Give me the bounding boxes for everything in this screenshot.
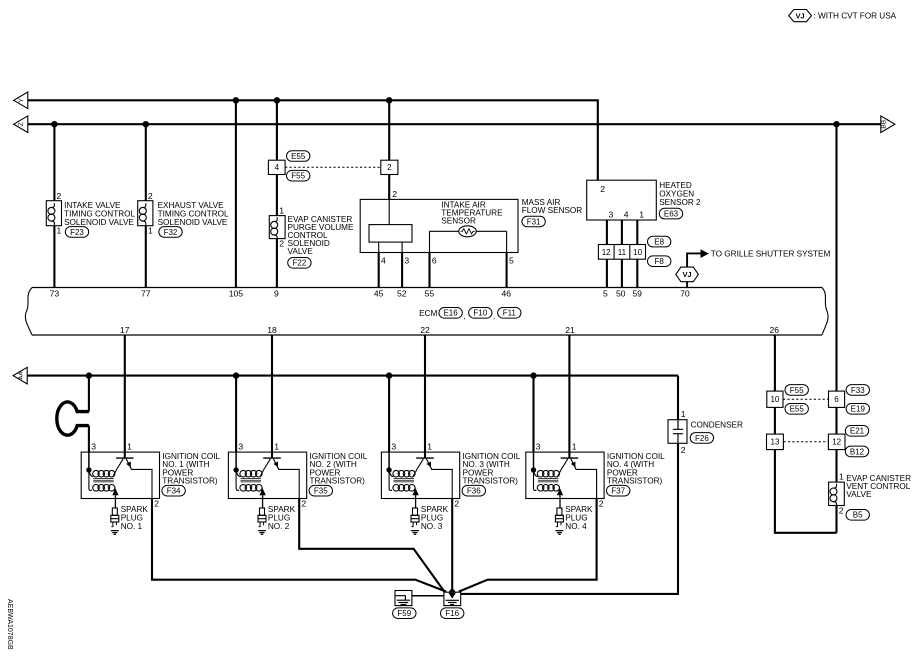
connector box 2 xyxy=(381,160,398,174)
wire MAF pin 4 to ECM pin 45 xyxy=(378,253,380,288)
wire coil 1 pin 2 to ground joint xyxy=(152,499,446,592)
svg-text:F35: F35 xyxy=(314,487,328,496)
transformer core of coil 2 xyxy=(241,479,261,482)
secondary output arrow xyxy=(112,488,118,495)
svg-text:12: 12 xyxy=(832,438,841,447)
wire ECM to coil 2 pin 1 (base) xyxy=(271,335,273,458)
node AA bus / ignition coil 3 pin 3 xyxy=(386,372,392,378)
connector label F32 xyxy=(159,227,182,238)
wire pin 3 inside box xyxy=(235,452,237,470)
svg-text:1: 1 xyxy=(427,442,432,452)
wire MAF pin 5 to ECM pin 46 xyxy=(506,253,508,288)
transistor emitter arrowhead xyxy=(126,462,131,468)
ignition coil no. 4 box xyxy=(526,452,604,498)
connector label F55 (right) xyxy=(785,385,808,396)
wire coil 4 pin 2 to ground joint xyxy=(459,499,597,592)
svg-text:SENSOR 2: SENSOR 2 xyxy=(659,198,701,207)
secondary winding of coil 4 xyxy=(534,470,561,491)
power transistor of coil 3 xyxy=(416,458,452,498)
wire AA bus to coil 1 pin 3 (upper) xyxy=(88,376,90,412)
svg-text:10: 10 xyxy=(770,395,779,404)
secondary output arrow xyxy=(412,488,418,495)
svg-text:F22: F22 xyxy=(293,259,307,268)
svg-text:12: 12 xyxy=(602,248,611,257)
heated oxygen sensor 2 E63 box xyxy=(587,180,657,220)
primary winding of coil 3 xyxy=(389,470,417,478)
node ground joint above F16 xyxy=(449,589,455,595)
node coil 3 primary/secondary join xyxy=(386,467,391,472)
wire Y bus to mass air flow sensor pin 2 xyxy=(388,100,390,199)
svg-text:22: 22 xyxy=(420,325,430,335)
svg-text:4: 4 xyxy=(624,209,629,219)
arrowhead to grille shutter system xyxy=(701,249,709,258)
wire connector to ECM pin 50 xyxy=(621,259,623,287)
svg-text:TRANSISTOR): TRANSISTOR) xyxy=(310,477,366,486)
svg-text:CONDENSER: CONDENSER xyxy=(691,420,743,429)
svg-text:F23: F23 xyxy=(70,228,84,237)
svg-text:F10: F10 xyxy=(473,309,487,318)
connector boxes 12 11 10 (E8/F8) xyxy=(598,245,645,260)
connector label F36 xyxy=(462,485,485,496)
intake valve timing control solenoid valve F23 xyxy=(46,201,61,226)
svg-text:55: 55 xyxy=(425,289,435,299)
off-page arrow BB xyxy=(881,116,895,133)
svg-text:105: 105 xyxy=(229,289,244,299)
wire pin 3 inside box xyxy=(88,452,90,470)
node AA bus / ignition coil 4 pin 3 xyxy=(530,372,536,378)
svg-text:3: 3 xyxy=(91,442,96,452)
svg-text:ECM: ECM xyxy=(419,309,437,318)
transistor emitter arrowhead xyxy=(426,462,431,468)
svg-text:9: 9 xyxy=(274,289,279,299)
svg-text:46: 46 xyxy=(502,289,512,299)
wire MAF pin 6 to ECM pin 55 xyxy=(428,253,430,288)
node Y bus / pin 105 wire xyxy=(233,97,239,103)
svg-text:2: 2 xyxy=(392,189,397,199)
wire Z bus to ECM pin 73 xyxy=(53,124,55,287)
connector label F34 xyxy=(162,485,185,496)
connector box 10 xyxy=(767,391,783,407)
option symbol VJ xyxy=(789,10,812,22)
connector box 13 xyxy=(767,434,784,450)
coil of intake valve solenoid xyxy=(48,203,55,225)
svg-text:6: 6 xyxy=(432,256,437,266)
node coil 4 primary/secondary join xyxy=(531,467,536,472)
exhaust valve timing control solenoid valve F32 xyxy=(138,201,153,226)
wire MAF internal pin 2 xyxy=(388,199,390,224)
transistor emitter arrowhead xyxy=(571,462,576,468)
wire ECM to coil 3 pin 1 (base) xyxy=(424,335,426,458)
wire Y bus to ECM pin 105 xyxy=(235,100,237,287)
wire loop to coil 1 pin 3 xyxy=(88,426,90,453)
svg-text:21: 21 xyxy=(565,325,575,335)
off-page arrow AA xyxy=(13,367,27,384)
wire IAT to pin 6 xyxy=(429,231,431,252)
wire IAT to pin 5 xyxy=(506,231,508,252)
node Z bus / exhaust valve solenoid wire xyxy=(143,121,149,127)
node Y bus / mass air flow sensor wire xyxy=(386,97,392,103)
connector label F22 xyxy=(288,258,311,269)
svg-text:2: 2 xyxy=(454,499,459,509)
node coil 2 primary/secondary join xyxy=(233,467,238,472)
wire Z bus xyxy=(28,123,881,125)
svg-text:2: 2 xyxy=(839,505,844,515)
ECM connector E16 xyxy=(439,308,462,319)
wire HO2S pin 1 xyxy=(636,220,638,245)
dashed connector link 13-12 xyxy=(784,441,829,443)
wire ECM to coil 1 pin 1 (base) xyxy=(124,335,126,458)
connector label F33 xyxy=(846,385,869,396)
svg-text:,: , xyxy=(493,312,495,321)
svg-text:1: 1 xyxy=(572,442,577,452)
svg-text:F11: F11 xyxy=(503,309,517,318)
secondary winding of coil 3 xyxy=(389,470,416,491)
ground connector F59 xyxy=(393,608,416,619)
connector label F55 xyxy=(287,170,310,181)
svg-text:SENSOR: SENSOR xyxy=(441,217,476,226)
wire AA bus to coil 3 pin 3 xyxy=(388,376,390,453)
svg-text:F8: F8 xyxy=(655,257,665,266)
svg-text:1: 1 xyxy=(681,409,686,419)
svg-text:,: , xyxy=(463,312,465,321)
wire Y bus to ECM pin 9 xyxy=(276,100,278,287)
node AA bus / ignition coil 1 pin 3 xyxy=(86,372,92,378)
svg-text:F55: F55 xyxy=(790,386,804,395)
svg-text:3: 3 xyxy=(391,442,396,452)
wire AA bus to coil 4 pin 3 xyxy=(532,376,534,453)
transformer core of coil 4 xyxy=(538,479,558,482)
svg-text:18: 18 xyxy=(267,325,277,335)
wire F59 to F16 xyxy=(395,595,444,597)
connector label E55 xyxy=(287,151,310,162)
connector label F8 xyxy=(648,256,671,267)
node Z bus / right column wire xyxy=(833,121,839,127)
secondary winding of coil 1 xyxy=(89,470,116,491)
svg-text:1: 1 xyxy=(279,206,284,216)
svg-text:4: 4 xyxy=(275,163,280,172)
ignition coil no. 1 box xyxy=(81,452,159,498)
svg-text:4: 4 xyxy=(381,256,386,266)
svg-text:B12: B12 xyxy=(850,447,865,456)
wire HO2S pin 4 xyxy=(621,220,623,245)
svg-text:TRANSISTOR): TRANSISTOR) xyxy=(607,477,663,486)
svg-text:BB: BB xyxy=(881,119,888,128)
svg-text:10: 10 xyxy=(633,248,642,257)
MAF hot wire element xyxy=(369,225,412,243)
wire VJ symbol to grille shutter arrow xyxy=(687,253,701,267)
wire connector to ECM pin 5 xyxy=(606,259,608,287)
svg-text:NO. 2: NO. 2 xyxy=(268,522,290,531)
svg-text:3: 3 xyxy=(238,442,243,452)
wire pin 3 inside box xyxy=(533,452,535,470)
svg-text:F36: F36 xyxy=(467,487,481,496)
secondary output arrow xyxy=(259,488,265,495)
svg-text:VJ: VJ xyxy=(796,11,805,20)
wire AA bus to coil 2 pin 3 xyxy=(235,376,237,453)
connector label E55 (right) xyxy=(785,404,808,415)
svg-text:11: 11 xyxy=(618,248,627,257)
connector box 6 xyxy=(829,391,845,407)
wire ECM to coil 4 pin 1 (base) xyxy=(568,335,570,458)
connector label E19 xyxy=(846,404,869,415)
spark plug no. 2 xyxy=(258,508,266,534)
connector box 4 xyxy=(268,160,285,174)
svg-text:E55: E55 xyxy=(291,152,306,161)
svg-text:F37: F37 xyxy=(611,487,625,496)
wire Y bus to heated oxygen sensor 2 xyxy=(28,100,598,180)
svg-text:F26: F26 xyxy=(695,434,709,443)
connector label E63 xyxy=(659,208,682,219)
svg-text:17: 17 xyxy=(120,325,130,335)
off-page arrow Y xyxy=(14,92,28,109)
coil of exhaust valve solenoid xyxy=(139,203,146,225)
svg-text:45: 45 xyxy=(374,289,384,299)
svg-text:26: 26 xyxy=(770,325,780,335)
svg-text:AA: AA xyxy=(18,372,24,380)
svg-text:TRANSISTOR): TRANSISTOR) xyxy=(463,477,519,486)
spark plug no. 4 xyxy=(555,508,563,534)
svg-text:: WITH CVT FOR USA: : WITH CVT FOR USA xyxy=(814,12,897,21)
wire AA bus to condenser xyxy=(677,376,679,420)
wire coil 3 pin 2 to ground joint xyxy=(451,499,453,593)
svg-text:3: 3 xyxy=(536,442,541,452)
wire IAT left lead xyxy=(430,230,459,232)
ignition coil no. 3 box xyxy=(381,452,459,498)
EVAP canister vent control valve B5 xyxy=(829,482,845,505)
off-page arrow Z xyxy=(14,116,28,133)
svg-text:VALVE: VALVE xyxy=(846,490,872,499)
svg-text:1: 1 xyxy=(57,226,62,236)
transistor emitter arrowhead xyxy=(273,462,278,468)
svg-text:59: 59 xyxy=(632,289,642,299)
power transistor of coil 2 xyxy=(263,458,299,498)
svg-text:2: 2 xyxy=(387,163,392,172)
svg-text:AEBWA1078GB: AEBWA1078GB xyxy=(6,599,13,650)
svg-text:F59: F59 xyxy=(397,609,411,618)
wire pin 3 inside box xyxy=(388,452,390,470)
svg-text:2: 2 xyxy=(301,499,306,509)
transformer core of coil 3 xyxy=(394,479,414,482)
svg-text:2: 2 xyxy=(600,184,605,194)
wire MAF element to pin 3 xyxy=(401,242,403,252)
svg-text:2: 2 xyxy=(279,239,284,249)
svg-text:F32: F32 xyxy=(164,228,178,237)
svg-text:E16: E16 xyxy=(443,309,458,318)
connector label F23 xyxy=(65,227,88,238)
svg-text:NO. 4: NO. 4 xyxy=(565,522,587,531)
svg-text:5: 5 xyxy=(603,289,608,299)
connector box 12 xyxy=(828,434,845,450)
ECM connector F11 xyxy=(498,308,521,319)
ground F16 xyxy=(444,592,461,605)
svg-text:E19: E19 xyxy=(851,405,866,414)
svg-text:2: 2 xyxy=(681,445,686,455)
spark plug no. 3 xyxy=(411,508,419,534)
svg-text:Z: Z xyxy=(18,122,25,126)
ECM module band xyxy=(25,288,828,336)
wire AA bus xyxy=(27,375,678,377)
svg-text:VALVE: VALVE xyxy=(288,247,314,256)
primary winding of coil 2 xyxy=(236,470,264,478)
wire coil output to spark plug xyxy=(114,495,116,508)
wire coil output to spark plug xyxy=(559,495,561,508)
ground F59 xyxy=(395,591,412,606)
wire coil output to spark plug xyxy=(415,495,417,508)
wire IAT right lead xyxy=(476,230,506,232)
svg-text:F31: F31 xyxy=(527,217,541,226)
connector label F26 xyxy=(690,433,713,444)
svg-text:2: 2 xyxy=(154,499,159,509)
wire ECM pin 70 to VJ symbol xyxy=(686,282,688,288)
svg-text:1: 1 xyxy=(274,442,279,452)
transformer core of coil 1 xyxy=(93,479,113,482)
node Z bus / intake valve solenoid wire xyxy=(51,121,57,127)
svg-text:52: 52 xyxy=(397,289,407,299)
wire MAF pin 3 to ECM pin 52 xyxy=(401,253,403,288)
wire connector to ECM pin 59 xyxy=(636,259,638,287)
svg-text:TO GRILLE SHUTTER SYSTEM: TO GRILLE SHUTTER SYSTEM xyxy=(711,249,831,258)
svg-text:77: 77 xyxy=(141,289,151,299)
mass air flow sensor F31 box xyxy=(360,199,518,252)
wire loop (coiled lead) xyxy=(57,402,89,435)
svg-text:73: 73 xyxy=(50,289,60,299)
condenser F26 xyxy=(668,420,687,444)
svg-text:SOLENOID VALVE: SOLENOID VALVE xyxy=(158,218,228,227)
svg-text:2: 2 xyxy=(599,499,604,509)
svg-text:F16: F16 xyxy=(445,609,459,618)
wire coil 2 pin 2 to ground joint xyxy=(299,499,444,592)
primary winding of coil 1 xyxy=(89,470,117,478)
power transistor of coil 1 xyxy=(116,458,152,498)
svg-text:F55: F55 xyxy=(291,172,305,181)
spark plug no. 1 xyxy=(111,508,119,534)
wire Z bus down right column xyxy=(835,124,837,533)
svg-text:50: 50 xyxy=(616,289,626,299)
svg-text:70: 70 xyxy=(680,289,690,299)
coil of EVAP vent valve xyxy=(830,484,837,506)
svg-text:1: 1 xyxy=(148,226,153,236)
option symbol VJ xyxy=(676,267,699,282)
secondary winding of coil 2 xyxy=(236,470,263,491)
primary winding of coil 4 xyxy=(534,470,562,478)
svg-text:6: 6 xyxy=(834,395,839,404)
wire ECM pin 26 down through connectors to bottom joint xyxy=(775,335,837,533)
svg-text:1: 1 xyxy=(839,472,844,482)
dashed connector link E55/F55 xyxy=(285,166,381,168)
connector label F37 xyxy=(607,485,630,496)
wire HO2S pin 3 xyxy=(606,220,608,245)
node coil 1 primary/secondary join xyxy=(86,467,91,472)
svg-text:NO. 3: NO. 3 xyxy=(421,522,443,531)
connector label E21 xyxy=(845,426,868,437)
svg-text:E21: E21 xyxy=(850,427,865,436)
ignition coil no. 2 box xyxy=(228,452,306,498)
svg-text:E63: E63 xyxy=(664,210,679,219)
svg-text:3: 3 xyxy=(609,209,614,219)
svg-text:SOLENOID VALVE: SOLENOID VALVE xyxy=(64,218,134,227)
intake air temperature sensor (thermistor) xyxy=(459,226,477,237)
svg-text:5: 5 xyxy=(509,256,514,266)
secondary output arrow xyxy=(557,488,563,495)
svg-text:E8: E8 xyxy=(654,238,664,247)
wire MAF element to pin 4 xyxy=(378,242,380,252)
svg-text:13: 13 xyxy=(771,438,780,447)
svg-text:FLOW SENSOR: FLOW SENSOR xyxy=(522,206,583,215)
node AA bus / ignition coil 2 pin 3 xyxy=(233,372,239,378)
svg-text:TRANSISTOR): TRANSISTOR) xyxy=(162,477,218,486)
dashed connector link 10-6 xyxy=(783,398,828,400)
node Y bus / EVAP purge valve wire xyxy=(274,97,280,103)
svg-text:3: 3 xyxy=(404,256,409,266)
wire Z bus to ECM pin 77 xyxy=(145,124,147,287)
EVAP canister purge volume control solenoid valve F22 xyxy=(269,216,285,239)
svg-text:NO. 1: NO. 1 xyxy=(121,522,143,531)
svg-text:VJ: VJ xyxy=(683,270,692,279)
svg-text:2: 2 xyxy=(57,191,62,201)
connector label F35 xyxy=(309,485,332,496)
coil of EVAP purge solenoid xyxy=(271,217,278,239)
connector label F31 xyxy=(522,216,545,227)
wire coil output to spark plug xyxy=(262,495,264,508)
ground connector F16 xyxy=(441,608,464,619)
svg-text:F34: F34 xyxy=(167,487,181,496)
svg-text:Y: Y xyxy=(18,98,25,103)
wire condenser pin 2 to ground F16 xyxy=(461,443,678,594)
svg-text:1: 1 xyxy=(639,209,644,219)
connector label B12 xyxy=(845,446,868,457)
ECM connector F10 xyxy=(469,308,492,319)
power transistor of coil 4 xyxy=(561,458,597,498)
svg-text:B5: B5 xyxy=(853,511,863,520)
svg-text:E55: E55 xyxy=(790,405,805,414)
svg-text:1: 1 xyxy=(127,442,132,452)
connector label B5 xyxy=(846,510,869,521)
svg-text:F33: F33 xyxy=(851,386,865,395)
connector label E8 xyxy=(648,236,671,247)
svg-text:2: 2 xyxy=(148,191,153,201)
